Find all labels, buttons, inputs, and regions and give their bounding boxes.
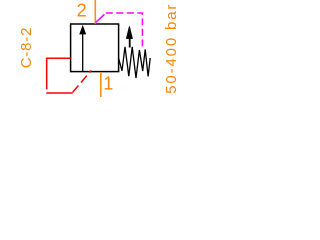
svg-text:1: 1 <box>103 74 113 94</box>
drain line horizontal upper <box>47 58 71 89</box>
valve body V1 <box>71 24 119 72</box>
port 1 line <box>100 72 102 97</box>
spring adjustment arrowhead <box>126 26 132 38</box>
pilot line diagonal segment (dashed) <box>96 13 106 23</box>
spring adjustment arrow shaft <box>129 36 131 48</box>
flow arrow shaft <box>82 32 84 72</box>
svg-text:2: 2 <box>77 1 87 21</box>
spring <box>119 47 151 78</box>
pilot line horizontal+vertical segment (dashed) <box>106 13 143 47</box>
port 2 line <box>94 0 96 24</box>
svg-text:50-400 bar: 50-400 bar <box>163 3 180 94</box>
drain line diagonal (dashed) <box>73 71 92 93</box>
flow arrowhead <box>80 26 86 34</box>
svg-text:C-8-2: C-8-2 <box>18 27 35 69</box>
drain line horizontal lower <box>46 92 72 94</box>
